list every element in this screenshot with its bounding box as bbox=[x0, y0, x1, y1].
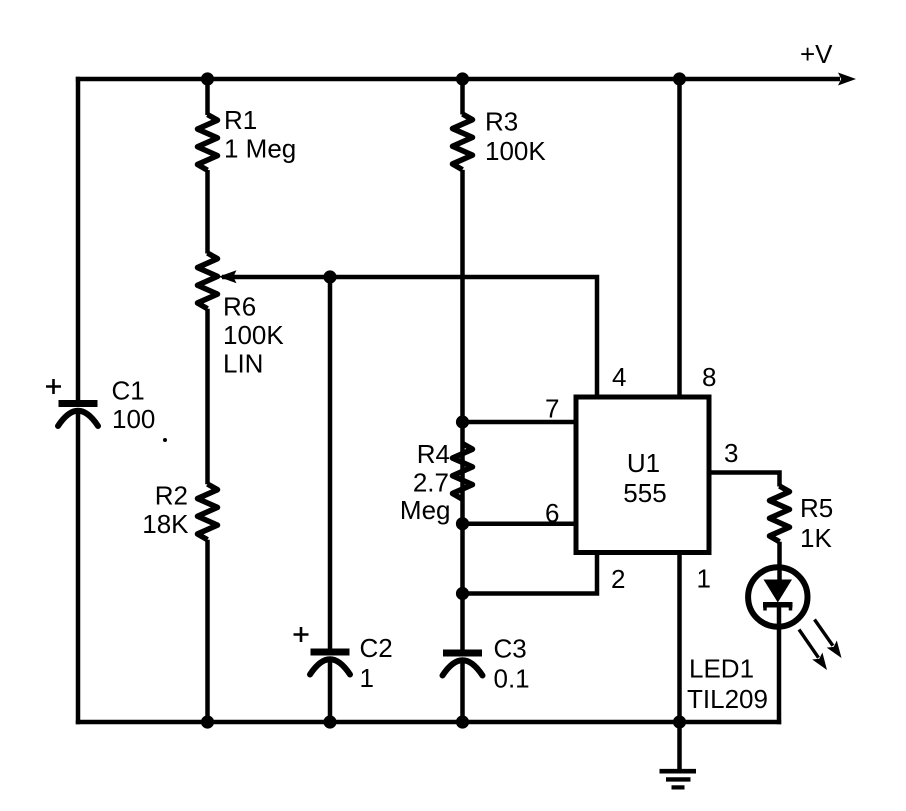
svg-text:555: 555 bbox=[623, 478, 666, 508]
svg-text:2: 2 bbox=[611, 564, 625, 594]
svg-text:TIL209: TIL209 bbox=[687, 684, 768, 714]
svg-text:2.7: 2.7 bbox=[413, 468, 449, 498]
svg-text:R3: R3 bbox=[485, 107, 518, 137]
svg-text:R5: R5 bbox=[800, 493, 833, 523]
svg-text:100K: 100K bbox=[485, 136, 546, 166]
svg-text:100K: 100K bbox=[223, 320, 284, 350]
svg-text:18K: 18K bbox=[142, 509, 189, 539]
svg-text:4: 4 bbox=[612, 362, 626, 392]
svg-text:U1: U1 bbox=[627, 448, 660, 478]
svg-text:100: 100 bbox=[112, 404, 155, 434]
svg-text:8: 8 bbox=[702, 362, 716, 392]
svg-text:LIN: LIN bbox=[223, 349, 263, 379]
svg-text:0.1: 0.1 bbox=[494, 664, 530, 694]
svg-text:R2: R2 bbox=[155, 481, 188, 511]
svg-text:7: 7 bbox=[545, 394, 559, 424]
svg-text:1: 1 bbox=[697, 564, 711, 594]
svg-text:R6: R6 bbox=[223, 292, 256, 322]
svg-text:1: 1 bbox=[360, 663, 374, 693]
svg-text:6: 6 bbox=[545, 498, 559, 528]
svg-text:+V: +V bbox=[800, 39, 833, 69]
svg-text:R4: R4 bbox=[417, 439, 450, 469]
svg-text:1K: 1K bbox=[800, 523, 832, 553]
svg-text:C1: C1 bbox=[112, 376, 145, 406]
svg-text:3: 3 bbox=[724, 438, 738, 468]
svg-text:C2: C2 bbox=[360, 633, 393, 663]
svg-text:R1: R1 bbox=[224, 105, 257, 135]
svg-text:C3: C3 bbox=[494, 634, 527, 664]
svg-text:Meg: Meg bbox=[400, 495, 451, 525]
svg-text:LED1: LED1 bbox=[689, 654, 754, 684]
svg-text:1 Meg: 1 Meg bbox=[224, 134, 296, 164]
